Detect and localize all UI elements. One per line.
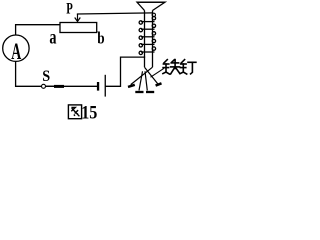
coil top end loop	[152, 13, 155, 16]
wire slider P to coil top	[78, 13, 153, 14]
coil L1 turn 4	[139, 39, 155, 47]
switch S handle (thick bar)	[54, 85, 64, 88]
coil L1 turn 1	[139, 17, 155, 25]
nail D head bar	[156, 83, 162, 85]
nail A head bar	[128, 85, 135, 87]
leader line to iron-nails label	[151, 68, 165, 77]
label 铁 (iron) hand-drawn glyph	[163, 60, 180, 74]
caption 图 (figure) hand-drawn glyph	[68, 105, 81, 119]
svg-text:P: P	[66, 0, 73, 17]
screw tip taper right (continues as nail A line)	[131, 67, 153, 84]
screw (iron core) head	[137, 2, 165, 10]
battery B1 negative plate (short thick)	[97, 82, 99, 91]
coil L1 turn 3	[139, 32, 155, 40]
ammeter A1 circle	[3, 35, 29, 61]
svg-text:15: 15	[81, 101, 97, 123]
svg-text:b: b	[97, 29, 104, 48]
label 钉 (nail) hand-drawn glyph	[180, 60, 196, 74]
svg-text:A: A	[11, 39, 21, 64]
screw head top edge	[137, 1, 165, 3]
nail C shaft	[145, 71, 147, 90]
screw shaft left edge	[144, 11, 146, 68]
wire switch to battery	[46, 85, 97, 87]
rheostat R1 body	[60, 23, 97, 33]
switch S blade	[46, 85, 55, 87]
svg-text:a: a	[49, 26, 56, 48]
battery B1 positive plate (long thin)	[105, 75, 106, 97]
coil L1 turn 2	[139, 24, 155, 32]
switch S pivot circle	[42, 84, 46, 88]
rheostat slider arrow P	[75, 14, 81, 22]
screw tip taper left (continues as nail D line)	[145, 67, 158, 84]
nail B head bar	[135, 91, 143, 93]
screw shaft right edge	[152, 11, 154, 68]
coil L1 turn 5	[139, 47, 155, 55]
nail C head bar	[146, 91, 154, 93]
svg-text:S: S	[42, 68, 50, 85]
wire ammeter top to rheostat left	[16, 25, 60, 35]
nail B shaft	[139, 71, 143, 90]
wire battery to coil bottom	[106, 57, 145, 86]
wire ammeter bottom to switch	[16, 61, 42, 86]
